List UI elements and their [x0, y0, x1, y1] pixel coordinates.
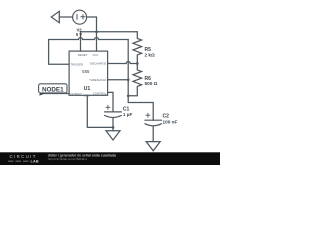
wire output to node flag — [42, 93, 69, 95]
minus sign (rotated) inside V2 — [76, 14, 78, 19]
svg-text:VCC: VCC — [93, 53, 99, 57]
svg-text:http://circuitlab.com/c/8dbfdv: http://circuitlab.com/c/8dbfdvx — [48, 157, 88, 161]
resistor R6 — [128, 64, 141, 96]
svg-text:DISCHARGE: DISCHARGE — [90, 62, 107, 66]
watermark bar — [0, 152, 220, 165]
node dot gnd junction — [112, 126, 115, 129]
wire discharge with hop over right net — [108, 62, 138, 64]
svg-text:LAB: LAB — [31, 160, 39, 164]
svg-text:THRESHOLD: THRESHOLD — [89, 78, 106, 82]
wire control pin to C1 — [108, 92, 113, 112]
node junction dot vcc/rail A — [95, 30, 98, 33]
plus mark C2 — [146, 113, 150, 117]
plus mark C1 — [106, 105, 110, 109]
wire gnd pin down and right — [87, 95, 113, 127]
svg-text:NODE1: NODE1 — [42, 86, 64, 93]
voltage source V2 circle — [73, 10, 87, 24]
svg-text:2 kΩ: 2 kΩ — [145, 53, 156, 58]
svg-text:CIRCUIT: CIRCUIT — [10, 154, 37, 159]
node dot R5/R6/discharge — [136, 62, 139, 65]
svg-text:500 Ω: 500 Ω — [145, 81, 158, 86]
NODE1 flag — [39, 84, 67, 96]
svg-text:OUTPUT: OUTPUT — [70, 92, 82, 96]
svg-text:U1: U1 — [84, 86, 91, 92]
rail A (+5V net) — [81, 31, 138, 33]
wire vcc vertical down to chip VCC pin — [96, 17, 98, 51]
wire C2 bottom to gnd — [152, 126, 154, 142]
node dot threshold — [127, 78, 130, 81]
wire C1 bottom to gnd — [112, 118, 114, 131]
svg-text:GND: GND — [83, 93, 89, 97]
wire threshold to right net — [108, 79, 129, 81]
rail B left drop to trigger — [49, 40, 70, 65]
wire RESET vertical — [80, 32, 82, 51]
rail B right drop vertical — [127, 40, 129, 96]
svg-text:5 V: 5 V — [76, 32, 82, 37]
svg-text:1 µF: 1 µF — [123, 112, 133, 117]
svg-text:CONTROL: CONTROL — [93, 91, 107, 95]
svg-text:100 nF: 100 nF — [163, 119, 178, 124]
wire flag to source — [59, 16, 72, 18]
resistor R5 — [133, 32, 142, 64]
ground symbol 1 — [106, 131, 120, 140]
555 chip body U1 — [69, 51, 108, 95]
node dot bottom of right net — [127, 94, 130, 97]
svg-text:TRIGGER: TRIGGER — [70, 63, 83, 67]
terminal flag arrow — [51, 11, 59, 22]
svg-text:RESET: RESET — [78, 53, 88, 57]
svg-text:555: 555 — [82, 69, 90, 74]
wire right net to C2 — [128, 96, 153, 120]
plus sign inside V2 — [81, 15, 85, 19]
wire source to vcc corner — [87, 16, 97, 18]
capacitor C2 plates — [145, 119, 162, 121]
rail B trigger/threshold net with hops — [49, 38, 129, 40]
capacitor C1 plates — [105, 111, 122, 113]
ground symbol 2 — [146, 142, 160, 151]
